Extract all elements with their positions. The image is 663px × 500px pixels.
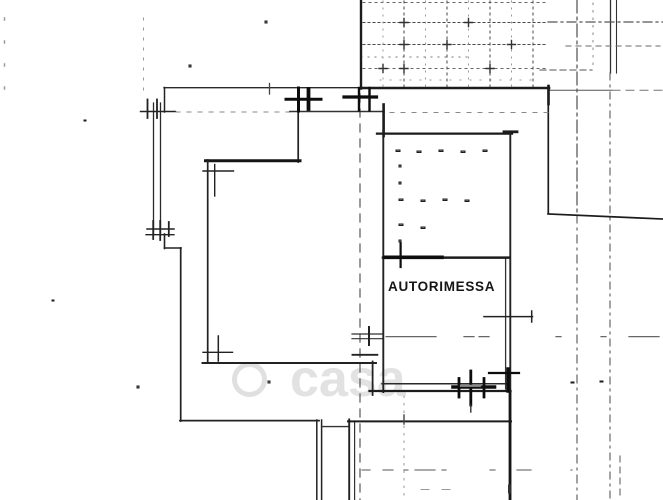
inner room top corner tick horizontal bbox=[203, 170, 234, 172]
left wall top tick vertical 2 bbox=[156, 100, 158, 119]
door tick vertical 1 at junction bbox=[358, 88, 360, 111]
svg-text:AUTORIMESSA: AUTORIMESSA bbox=[388, 279, 495, 294]
garage right wall full bbox=[509, 134, 511, 500]
garage middle wall bbox=[383, 256, 509, 259]
halftone grid block: vertical dotted col 383 bbox=[382, 1, 384, 87]
faint dotted vertical x143 bbox=[143, 18, 145, 95]
upper court halftone dots bbox=[396, 150, 487, 242]
halftone grid block: horizontal dotted row 1 bbox=[363, 2, 548, 4]
garage inner right wall bbox=[505, 258, 507, 389]
far right block sparse dotted col bbox=[592, 3, 594, 70]
left wall top tick horizontal bbox=[141, 111, 176, 113]
boundary line y90 dashed bbox=[612, 89, 663, 91]
bottom rect dotted column bbox=[403, 396, 405, 500]
bottom rect left wall a bbox=[348, 420, 350, 500]
far right dash-dot line y22 bbox=[548, 21, 663, 23]
faint left edge dots bbox=[4, 18, 6, 100]
inner room bottom corner tick horizontal bbox=[203, 351, 233, 353]
far right dashed line y46 bbox=[566, 45, 660, 47]
garage connecting wall vertical bbox=[372, 362, 374, 396]
inner room bottom corner tick vertical bbox=[217, 336, 219, 361]
outer left wall lower bbox=[180, 248, 182, 421]
garage bottom-right corner tick vertical bbox=[506, 369, 510, 391]
left wall bottom tick horizontal 1 bbox=[147, 228, 174, 230]
halftone grid block: vertical dotted col 425 bbox=[425, 1, 427, 87]
dash-dot line y112 left segment bbox=[176, 111, 290, 113]
halftone grid block: horizontal dotted row 4 bbox=[361, 56, 470, 58]
boundary dash vertical x610 lower bbox=[609, 73, 611, 500]
inner room right wall bbox=[297, 89, 299, 163]
left corner vertical bbox=[164, 88, 166, 113]
halftone grid block: vertical dotted col 511 bbox=[511, 1, 513, 87]
left wall line a bbox=[153, 103, 155, 235]
inner room thick top wall bbox=[206, 159, 301, 162]
watermark casa.it ring bbox=[235, 365, 265, 395]
grid cross marks bbox=[379, 19, 516, 73]
right boundary wall vertical bbox=[547, 88, 549, 214]
bottom rect left wall b bbox=[354, 421, 356, 500]
garage inner bottom wall bbox=[382, 383, 506, 385]
garage door tick vertical 3 bbox=[483, 379, 486, 398]
garage door tick vertical 2 bbox=[469, 371, 472, 405]
boundary dash vertical x577 lower bbox=[576, 215, 578, 500]
left wall step vertical bbox=[164, 234, 166, 249]
bottom rect top wall bbox=[348, 420, 511, 422]
garage left wall tick vertical bbox=[368, 327, 370, 345]
garage door tick vertical 1 bbox=[458, 379, 461, 398]
short dashed vertical x620 bbox=[619, 456, 621, 500]
garage door tick bar bbox=[453, 385, 495, 389]
halftone grid block: horizontal dotted row 2 bbox=[363, 22, 548, 24]
left wall bottom tick vertical 3 bbox=[168, 222, 170, 236]
halftone grid block: vertical dotted col 490 bbox=[489, 1, 491, 87]
main vertical line top bbox=[360, 0, 362, 89]
inner room door tick vertical 2 bbox=[307, 89, 311, 109]
left wall step horizontal bbox=[165, 247, 182, 249]
door tick bar at main junction bbox=[344, 95, 377, 98]
left wall line b bbox=[160, 103, 162, 235]
left wall bottom tick vertical 1 bbox=[152, 221, 154, 239]
top wall thin left part bbox=[164, 87, 362, 89]
door tick vertical 2 at junction bbox=[368, 88, 370, 111]
scanner specks bbox=[52, 21, 603, 388]
svg-text:casa: casa bbox=[290, 350, 407, 408]
dash line y112 right segment bbox=[390, 112, 548, 114]
garage right opening tick bbox=[531, 311, 533, 322]
garage left bracket vertical bbox=[382, 105, 385, 137]
garage right opening line bbox=[484, 316, 533, 318]
garage outer bottom wall bbox=[370, 390, 511, 392]
halftone grid block: horizontal dotted row 5 bbox=[363, 68, 548, 70]
garage top wall bbox=[377, 132, 512, 134]
halftone grid block: vertical dotted col 404 bbox=[403, 1, 405, 87]
garage left wall bbox=[382, 130, 384, 392]
boundary corner thick bbox=[547, 86, 550, 104]
bottom right wall blob bbox=[508, 486, 511, 492]
right boundary sloped wall bbox=[548, 214, 663, 219]
garage left wall tick horizontal 2 bbox=[352, 338, 382, 340]
bottom jog horizontal bbox=[322, 426, 349, 428]
boundary line y90 solid bbox=[550, 89, 612, 91]
far right block: double vertical wall b bbox=[616, 0, 618, 73]
dash-dot boundary line y337 bbox=[386, 336, 663, 338]
inner room bottom wall bbox=[203, 362, 377, 364]
solid line y111 center segment bbox=[290, 111, 384, 113]
garage left wall tick horizontal 1 bbox=[352, 333, 382, 335]
inner room top corner tick vertical bbox=[214, 165, 216, 197]
inner room left wall bbox=[207, 160, 209, 363]
garage left lower tick horizontal bbox=[353, 354, 378, 356]
top wall thick right part bbox=[361, 87, 549, 90]
bottom rect dashed line y489 bbox=[421, 489, 450, 491]
garage right wall lower dark overlay bbox=[509, 392, 512, 500]
halftone grid block: horizontal dotted row 3 bbox=[363, 44, 548, 46]
garage window tick vertical bbox=[400, 243, 402, 267]
garage top-right corner tick bbox=[504, 130, 517, 133]
boundary dash vertical x577 upper bbox=[576, 0, 578, 215]
garage middle wall dark segment bbox=[385, 255, 442, 259]
bottom outer wall horizontal bbox=[180, 420, 319, 422]
garage door small vertical bbox=[470, 405, 472, 412]
main vertical dash line x360 bbox=[359, 94, 361, 500]
inner room door tick vertical 1 bbox=[297, 88, 300, 111]
bottom jog vertical a bbox=[316, 420, 318, 500]
left wall bottom tick vertical 2 bbox=[159, 221, 161, 240]
halftone grid block: vertical dotted col 533 bbox=[532, 1, 534, 87]
garage door bar gray center bbox=[461, 385, 480, 387]
bottom rect dashed line y470 bbox=[362, 469, 572, 471]
left wall top tick vertical 1 bbox=[147, 100, 149, 119]
inner room door tick bar bbox=[286, 98, 321, 101]
top wall small tick bbox=[269, 84, 271, 95]
left wall bottom tick horizontal 2 bbox=[146, 234, 174, 236]
halftone grid block: vertical dotted col 447 bbox=[446, 1, 448, 87]
far right block: double vertical wall a bbox=[610, 0, 612, 73]
halftone grid block: horizontal dotted row 6 bbox=[380, 79, 540, 81]
halftone grid block: vertical dotted col 468 bbox=[468, 1, 470, 87]
far right dashed line y70 bbox=[540, 69, 592, 71]
garage bottom-right corner tick horizontal bbox=[489, 372, 519, 374]
bottom rect column tick bbox=[403, 415, 405, 424]
bottom jog vertical b bbox=[321, 420, 323, 500]
